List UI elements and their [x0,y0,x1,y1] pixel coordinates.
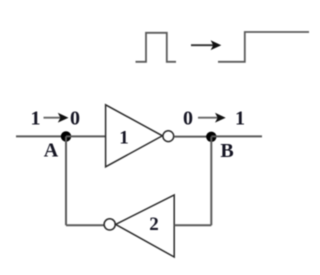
node A [61,131,71,141]
svg-text:1: 1 [235,108,245,130]
output step waveform [218,32,309,62]
wire: inverter 2 input to right corner [174,224,211,226]
node B label [220,140,233,162]
svg-text:1: 1 [119,127,129,148]
svg-text:0: 0 [183,108,193,130]
node B [206,132,216,142]
inverter 2 value label "2" [149,214,159,235]
wire: node B to right [211,135,262,137]
label 0 -> 1 above node B [183,108,245,130]
node A label [44,139,59,161]
wire: right corner up to node B [210,137,212,225]
inverter 2 triangle [116,195,175,257]
wire: node A down to feedback row [65,136,67,225]
svg-text:2: 2 [149,214,159,235]
svg-text:A: A [44,139,59,161]
inverter 1 output bubble [163,131,174,142]
inverter 2 output bubble [104,219,115,230]
wire: inverter 1 output to node B [174,136,211,138]
wire: left input to node A [16,135,66,137]
svg-text:0: 0 [70,108,80,130]
inverter 1 triangle [106,105,163,167]
transition arrow [191,40,221,50]
wire: node A to inverter 1 input [66,135,106,137]
inverter 1 value label "1" [119,127,129,148]
input pulse waveform [136,33,177,62]
svg-text:B: B [220,140,233,162]
wire: feedback bottom left horizontal to inverter 2 output bubble [66,224,104,226]
label 1 -> 0 above node A [31,108,81,130]
svg-text:1: 1 [31,108,41,130]
